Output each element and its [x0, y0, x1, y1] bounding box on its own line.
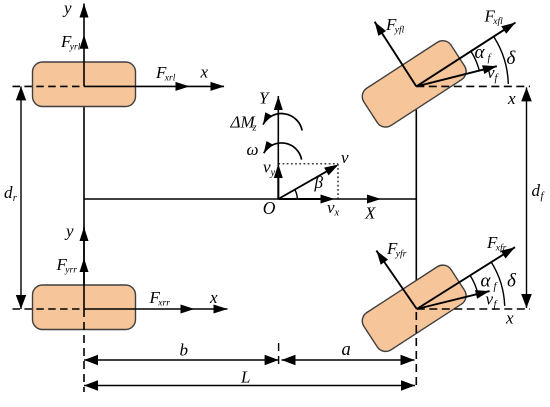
axis y line rear-left — [83, 4, 85, 87]
wheel rear-left tyre — [33, 62, 136, 107]
dimension d_r line — [20, 86, 22, 309]
force F_yrr arrowhead — [80, 258, 89, 272]
angle alpha_f arc front-right — [470, 275, 478, 294]
wire rear axle vertical (under wheels) — [83, 86, 85, 309]
svg-text:a: a — [342, 340, 351, 360]
svg-text:X: X — [364, 204, 376, 223]
svg-text:L: L — [240, 368, 250, 387]
center mark dashed tick — [278, 343, 280, 369]
svg-text:x: x — [209, 288, 218, 307]
force F_yfr arrow — [376, 251, 416, 309]
wire front axle vertical (under wheels) — [415, 86, 417, 309]
svg-text:d: d — [532, 181, 541, 200]
svg-text:O: O — [263, 198, 276, 218]
svg-text:y: y — [270, 168, 276, 179]
force F_xfl arrow — [416, 23, 515, 87]
axis x arrowhead rear-right — [214, 305, 228, 314]
wire body centerline horizontal — [84, 198, 416, 200]
svg-text:yfl: yfl — [394, 25, 405, 36]
angle beta arc — [295, 190, 298, 199]
axis Y line — [277, 96, 279, 199]
wire rear-right x-axis solid — [84, 308, 228, 310]
dimension a line — [282, 359, 415, 361]
svg-text:δ: δ — [507, 271, 517, 292]
svg-text:δ: δ — [507, 48, 517, 69]
axis X arrowhead — [367, 195, 381, 204]
velocity v_f arrow front-right — [417, 291, 490, 309]
axis y arrowhead rear-right — [80, 227, 89, 241]
svg-text:yrr: yrr — [64, 266, 77, 276]
axis y arrowhead rear-left — [80, 4, 89, 18]
svg-text:y: y — [62, 0, 72, 18]
svg-text:xrr: xrr — [157, 299, 170, 309]
yaw moment Delta M_z curved arrow — [263, 114, 302, 131]
velocity v arrow — [278, 166, 336, 199]
svg-text:x: x — [334, 208, 340, 219]
svg-text:x: x — [507, 89, 516, 108]
svg-text:b: b — [180, 341, 189, 360]
wheel front-right tyre (steered) — [358, 261, 469, 355]
wire rear-left x-axis solid — [84, 85, 224, 87]
svg-text:v: v — [341, 148, 349, 167]
dimension d_f line — [526, 87, 528, 308]
angle delta arc front-left — [494, 37, 508, 84]
svg-text:yfr: yfr — [395, 249, 407, 260]
wire front axle dashed extension below (over wheel) — [415, 312, 417, 390]
angle delta arc front-right — [491, 262, 504, 306]
wire front-left dashed x line — [416, 85, 530, 87]
force F_xrl arrowhead — [176, 82, 190, 91]
velocity v_f arrow front-left — [416, 66, 497, 86]
wire front-right dashed x line — [417, 308, 530, 310]
svg-text:x: x — [505, 309, 514, 328]
svg-text:x: x — [200, 63, 209, 82]
wheel rear-right tyre — [33, 285, 136, 330]
svg-text:β: β — [314, 173, 324, 192]
svg-text:z: z — [252, 123, 257, 134]
svg-text:y: y — [64, 222, 74, 241]
wire rear-right centerline dashed — [13, 308, 85, 310]
wheel front-left tyre (steered) — [358, 37, 469, 131]
velocity v_x arrow — [278, 198, 328, 200]
svg-text:xrl: xrl — [164, 74, 176, 84]
svg-text:Y: Y — [259, 89, 270, 108]
svg-text:ω: ω — [247, 140, 259, 159]
svg-text:xfr: xfr — [495, 243, 507, 254]
angle alpha_f arc front-left — [471, 51, 479, 70]
dimension b line — [84, 359, 279, 361]
axis x arrowhead rear-left — [211, 82, 225, 91]
dotted projection lines of v — [278, 163, 338, 165]
svg-text:yrl: yrl — [69, 43, 81, 53]
wire rear-left centerline dashed — [13, 85, 85, 87]
force F_xrr arrowhead — [181, 305, 195, 314]
force F_yrl arrowhead — [80, 35, 89, 49]
force F_xfr arrow — [417, 247, 515, 309]
svg-text:v: v — [486, 290, 494, 309]
svg-text:d: d — [4, 183, 13, 202]
svg-text:xfl: xfl — [492, 16, 503, 27]
svg-text:α: α — [475, 42, 486, 63]
velocity v_y arrow — [277, 168, 279, 199]
axis y line rear-right — [83, 227, 85, 317]
dimension L line — [84, 385, 415, 387]
svg-text:α: α — [481, 271, 492, 292]
wire rear axle dashed extension below — [83, 322, 85, 392]
axis Y arrowhead — [274, 96, 283, 110]
force F_yfl arrow — [375, 22, 417, 87]
yaw rate omega curved arrow — [264, 143, 302, 160]
